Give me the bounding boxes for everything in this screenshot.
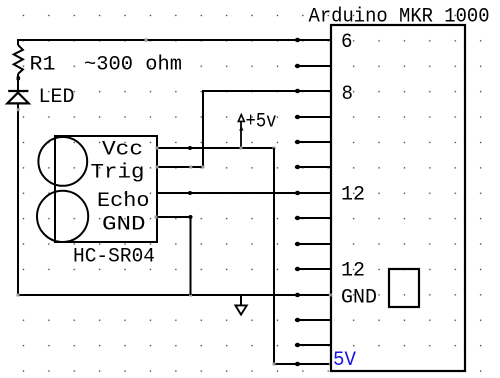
junction marker bbox=[329, 363, 332, 366]
junction marker bbox=[17, 108, 20, 111]
sensor U1 HC-SR04 box bbox=[55, 136, 157, 242]
wire net5V top: pin6 wire from R1 top to Arduino pin 6 bbox=[18, 40, 331, 45]
transducer circle top bbox=[38, 137, 87, 186]
junction marker bbox=[273, 147, 276, 150]
junction dot bbox=[17, 77, 21, 81]
junction marker bbox=[156, 166, 159, 169]
svg-text:R1: R1 bbox=[30, 54, 56, 77]
pin dot 6 bbox=[295, 38, 300, 42]
svg-text:~300 ohm: ~300 ohm bbox=[84, 54, 182, 77]
junction marker bbox=[273, 363, 276, 366]
svg-text:Echo: Echo bbox=[97, 190, 150, 213]
svg-text:HC-SR04: HC-SR04 bbox=[73, 246, 155, 269]
junction dot bbox=[189, 215, 193, 219]
junction marker bbox=[17, 294, 20, 297]
wire Trig to pin 8 bbox=[157, 91, 331, 167]
pin dot 5V bbox=[295, 362, 300, 366]
pin stub row5 bbox=[295, 140, 331, 144]
svg-text:LED: LED bbox=[39, 86, 75, 109]
junction marker bbox=[329, 294, 332, 297]
svg-text:GND: GND bbox=[341, 287, 377, 310]
resistor R1 bbox=[14, 45, 23, 74]
junction marker bbox=[202, 166, 205, 169]
junction marker bbox=[189, 294, 192, 297]
pin stub row12 bbox=[295, 318, 331, 322]
wire R1 bottom to LED bbox=[17, 74, 19, 91]
pin stub row10 bbox=[295, 267, 331, 271]
svg-text:Arduino MKR 1000: Arduino MKR 1000 bbox=[309, 6, 490, 29]
junction dot bbox=[188, 146, 192, 150]
svg-text:5V: 5V bbox=[333, 349, 356, 372]
junction marker bbox=[144, 38, 147, 41]
svg-text:6: 6 bbox=[341, 31, 353, 54]
svg-text:12: 12 bbox=[341, 260, 365, 283]
junction marker bbox=[155, 216, 158, 219]
pin stub row6 bbox=[295, 165, 331, 169]
wire Vcc to +5v rail bbox=[157, 147, 274, 149]
+5v supply symbol bbox=[238, 115, 244, 148]
junction dot bbox=[188, 191, 192, 195]
svg-text:+5v: +5v bbox=[246, 111, 277, 134]
pin stub row13 bbox=[295, 343, 331, 347]
junction marker bbox=[156, 147, 159, 150]
wire sensor GND down to bottom rail bbox=[156, 217, 191, 295]
transducer circle bottom bbox=[37, 191, 88, 242]
pin dot GND bbox=[295, 293, 300, 297]
svg-text:GND: GND bbox=[102, 214, 146, 237]
ground symbol bbox=[235, 295, 246, 315]
pin stub row9 bbox=[295, 242, 331, 246]
pin stub row4 bbox=[295, 115, 331, 119]
pin stub row8 bbox=[295, 216, 331, 220]
wire LED cathode down left side bbox=[17, 103, 19, 295]
svg-text:Trig: Trig bbox=[91, 161, 145, 184]
svg-text:Vcc: Vcc bbox=[102, 139, 143, 162]
wire GND bottom rail to Arduino GND pin bbox=[18, 294, 331, 296]
component square inside Arduino bbox=[389, 269, 419, 307]
svg-text:8: 8 bbox=[342, 83, 354, 106]
wire Echo to pin 12 bbox=[157, 192, 331, 194]
Arduino MKR 1000 box bbox=[331, 25, 465, 371]
pin dot 8 bbox=[295, 89, 300, 93]
pin stub row2 bbox=[295, 64, 331, 68]
pin dot 12 bbox=[295, 191, 300, 195]
junction marker bbox=[189, 166, 192, 169]
junction marker bbox=[240, 147, 243, 150]
LED D1 bbox=[7, 91, 28, 103]
svg-text:12: 12 bbox=[341, 184, 365, 207]
wire 5V riser down to Arduino 5V pin bbox=[274, 148, 331, 364]
